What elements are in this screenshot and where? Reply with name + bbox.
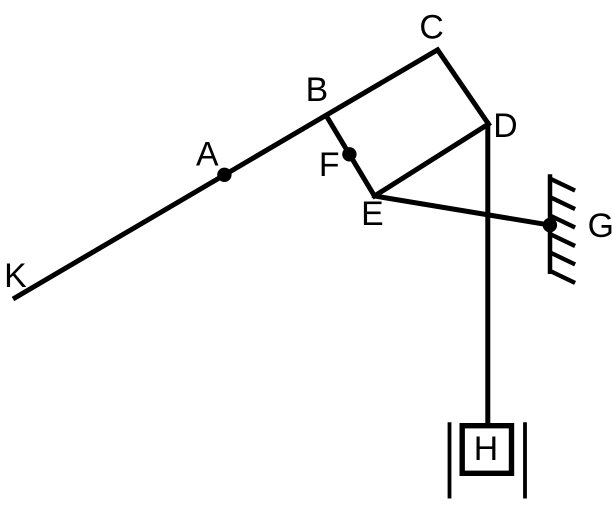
wall hatch 6 bbox=[550, 271, 575, 283]
joint dot A bbox=[217, 168, 231, 182]
wall hatch 5 bbox=[550, 252, 575, 264]
joint dot F bbox=[342, 147, 356, 161]
svg-text:C: C bbox=[419, 9, 443, 47]
svg-text:F: F bbox=[319, 146, 340, 184]
joint dot G bbox=[543, 218, 557, 232]
svg-text:A: A bbox=[196, 135, 219, 173]
wall hatch 2 bbox=[550, 197, 575, 209]
slider left rail bbox=[448, 422, 452, 498]
svg-text:K: K bbox=[4, 257, 27, 295]
wall hatch 4 bbox=[550, 234, 575, 246]
link D-H (vertical rod) bbox=[485, 123, 490, 425]
svg-text:G: G bbox=[588, 207, 612, 245]
ground wall line at G bbox=[548, 174, 553, 274]
link E-G bbox=[375, 196, 553, 226]
link B-F-E and E-D edge bbox=[327, 116, 489, 196]
wall hatch 1 bbox=[550, 179, 575, 191]
svg-text:E: E bbox=[361, 195, 384, 233]
svg-text:B: B bbox=[306, 71, 329, 109]
svg-text:H: H bbox=[474, 430, 498, 468]
slider H box bbox=[462, 426, 511, 474]
svg-text:D: D bbox=[493, 107, 517, 145]
link K-B-C (long bar) and C-D edge bbox=[13, 50, 489, 299]
slider right rail bbox=[523, 422, 527, 498]
wall hatch 3 bbox=[550, 215, 575, 227]
